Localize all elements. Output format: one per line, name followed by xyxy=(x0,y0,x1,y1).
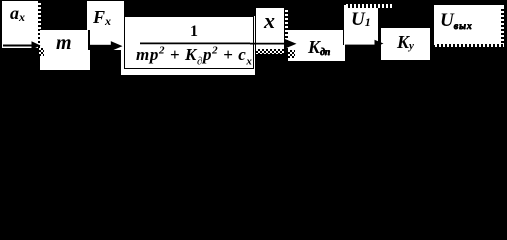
block K_dp (displacement sensor gain) xyxy=(288,30,345,61)
node x (displacement label box) xyxy=(255,8,284,49)
dither patch under arrow into K_dp xyxy=(288,50,295,58)
wire plant to K_dp (x) with arrowhead xyxy=(250,39,297,49)
node U_vyh (output voltage label box) xyxy=(434,5,504,45)
block K_y (amplifier gain) xyxy=(380,27,430,60)
block W(p)=1/(mp^2+K_d p^2+c_x) (plant transfer function) xyxy=(121,16,255,75)
wire K_dp to K_y (U_1) with arrowhead xyxy=(345,40,384,48)
dither patch under arrow into m xyxy=(39,48,44,56)
m box right border segment over F_x white xyxy=(88,30,90,50)
wire K_y to U_vyh xyxy=(430,45,433,47)
node F_x (force label box) xyxy=(87,1,124,50)
fraction bar of plant block xyxy=(140,42,250,44)
block m (mass) xyxy=(40,30,90,70)
denominator mp^2 + K_d p^2 + c_x xyxy=(136,46,253,63)
node a_x (input acceleration label box) xyxy=(2,1,38,48)
node U_1 (sensor output voltage label box) xyxy=(343,5,378,45)
wire m to plant block (F_x) with arrowhead xyxy=(89,41,123,51)
plant block outline rectangle xyxy=(124,16,254,69)
numerator 1 xyxy=(190,24,198,40)
wire a_x to m with arrowhead xyxy=(3,41,41,49)
